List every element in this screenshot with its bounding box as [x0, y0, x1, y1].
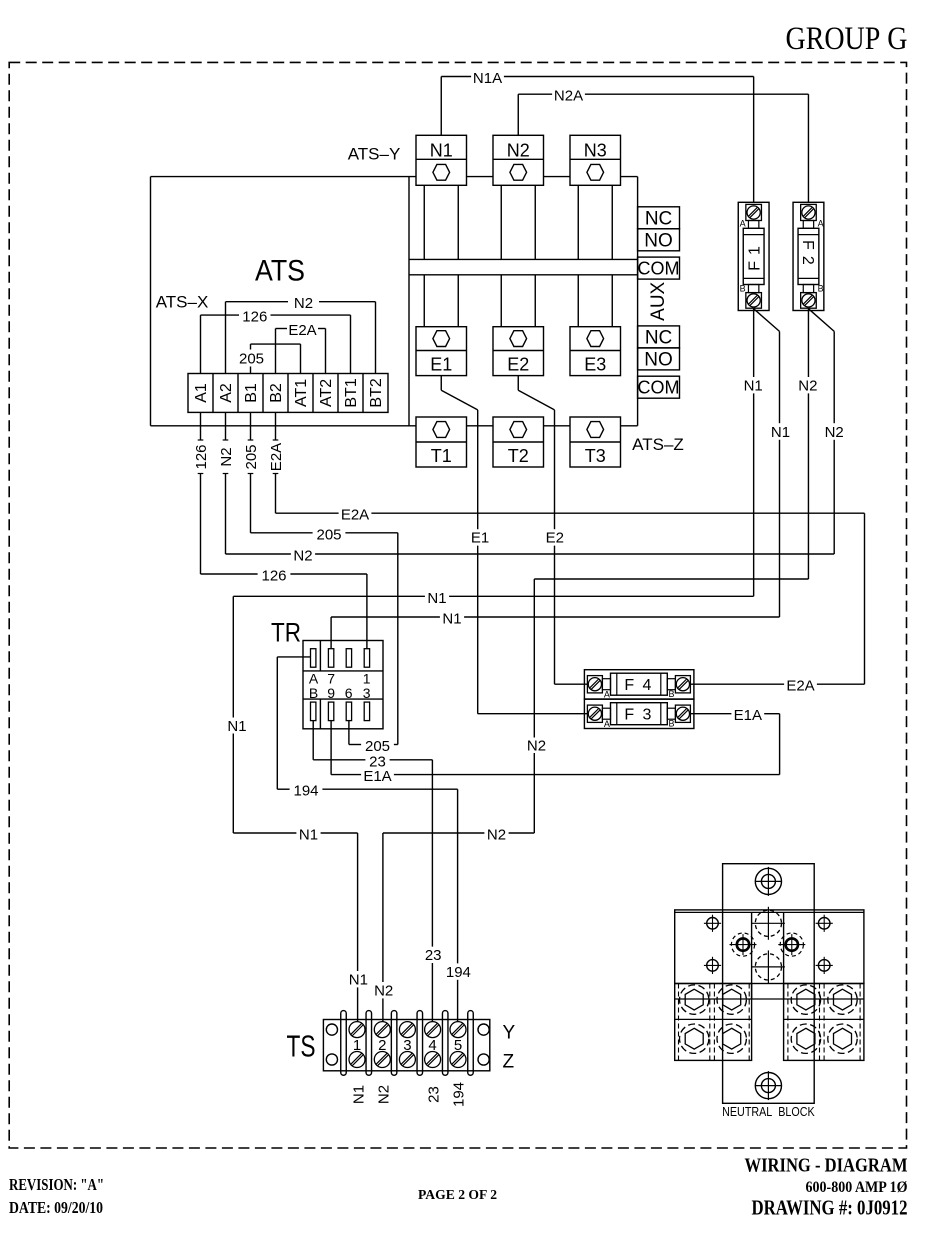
svg-text:N1: N1: [349, 972, 368, 989]
svg-text:B1: B1: [243, 383, 260, 403]
svg-text:1: 1: [363, 670, 371, 686]
svg-text:E2: E2: [507, 355, 529, 375]
svg-text:T1: T1: [431, 446, 452, 466]
svg-text:ATS–X: ATS–X: [156, 293, 209, 312]
svg-text:NO: NO: [644, 350, 673, 371]
svg-text:AT2: AT2: [318, 379, 335, 407]
svg-text:194: 194: [451, 1082, 468, 1107]
svg-text:205: 205: [316, 526, 341, 543]
svg-text:126: 126: [193, 444, 210, 469]
svg-text:B: B: [740, 284, 746, 294]
svg-text:Y: Y: [503, 1023, 516, 1044]
svg-text:7: 7: [327, 670, 335, 686]
svg-text:N1: N1: [227, 718, 246, 735]
svg-text:NC: NC: [645, 209, 672, 230]
svg-text:N1: N1: [771, 424, 790, 441]
svg-text:N1A: N1A: [473, 70, 502, 87]
svg-text:194: 194: [446, 964, 471, 981]
svg-text:B: B: [668, 689, 674, 699]
svg-text:NC: NC: [645, 328, 672, 349]
svg-text:E2A: E2A: [341, 507, 369, 524]
svg-text:AT1: AT1: [293, 379, 310, 407]
svg-text:N2: N2: [293, 548, 312, 565]
svg-text:E3: E3: [584, 355, 606, 375]
svg-text:A: A: [309, 670, 319, 686]
svg-text:N1: N1: [350, 1085, 367, 1104]
svg-text:N2: N2: [294, 295, 313, 312]
svg-text:2: 2: [378, 1037, 386, 1054]
svg-text:TR: TR: [271, 618, 301, 648]
svg-text:WIRING - DIAGRAM: WIRING - DIAGRAM: [745, 1155, 908, 1177]
svg-text:205: 205: [239, 350, 264, 367]
svg-text:600-800 AMP 1Ø: 600-800 AMP 1Ø: [806, 1179, 908, 1196]
svg-text:BT2: BT2: [368, 378, 385, 407]
svg-text:4: 4: [428, 1037, 436, 1054]
svg-text:N2: N2: [527, 738, 546, 755]
svg-text:F 3: F 3: [624, 706, 653, 723]
svg-text:B: B: [309, 685, 318, 701]
svg-text:T2: T2: [508, 446, 529, 466]
svg-text:E2A: E2A: [268, 443, 285, 471]
svg-text:A2: A2: [218, 383, 235, 403]
svg-text:B: B: [818, 284, 824, 294]
svg-text:N1: N1: [427, 590, 446, 607]
svg-text:23: 23: [425, 1086, 442, 1103]
svg-text:N2A: N2A: [554, 88, 583, 105]
svg-text:E2A: E2A: [786, 678, 814, 695]
svg-text:REVISION: "A": REVISION: "A": [9, 1175, 104, 1194]
svg-text:B: B: [668, 719, 674, 729]
svg-text:A1: A1: [193, 383, 210, 403]
svg-text:126: 126: [242, 309, 267, 326]
svg-text:N2: N2: [507, 140, 530, 160]
svg-text:E1A: E1A: [363, 768, 391, 785]
svg-text:NO: NO: [644, 231, 673, 252]
svg-text:N1: N1: [442, 611, 461, 628]
svg-text:COM: COM: [638, 258, 680, 278]
svg-text:N3: N3: [584, 140, 607, 160]
svg-text:E1: E1: [471, 530, 489, 547]
svg-text:N2: N2: [374, 983, 393, 1000]
svg-text:AUX: AUX: [648, 281, 669, 320]
svg-text:N2: N2: [218, 447, 235, 466]
svg-text:ATS: ATS: [255, 254, 305, 287]
svg-text:E1: E1: [430, 355, 452, 375]
svg-text:A: A: [740, 219, 746, 229]
svg-text:E2: E2: [546, 530, 564, 547]
svg-text:23: 23: [425, 947, 442, 964]
svg-text:ATS–Z: ATS–Z: [632, 435, 684, 454]
svg-text:BT1: BT1: [343, 378, 360, 407]
svg-text:N1: N1: [299, 827, 318, 844]
svg-text:F1: F1: [746, 240, 763, 271]
svg-text:1: 1: [353, 1037, 361, 1054]
svg-text:5: 5: [454, 1037, 462, 1054]
svg-text:N1: N1: [430, 140, 453, 160]
svg-text:194: 194: [293, 783, 318, 800]
svg-text:DRAWING #: 0J0912: DRAWING #: 0J0912: [752, 1195, 908, 1219]
svg-text:9: 9: [327, 685, 335, 701]
svg-text:COM: COM: [638, 378, 680, 398]
svg-text:ATS–Y: ATS–Y: [348, 145, 401, 164]
svg-text:N2: N2: [375, 1085, 392, 1104]
svg-text:T3: T3: [585, 446, 606, 466]
svg-text:3: 3: [403, 1037, 411, 1054]
svg-text:N2: N2: [487, 827, 506, 844]
svg-text:E1A: E1A: [734, 707, 762, 724]
svg-text:6: 6: [345, 685, 353, 701]
svg-text:A: A: [604, 719, 610, 729]
svg-text:DATE: 09/20/10: DATE: 09/20/10: [9, 1198, 103, 1217]
svg-text:A: A: [818, 219, 824, 229]
svg-text:N1: N1: [744, 378, 763, 395]
svg-text:TS: TS: [287, 1029, 316, 1064]
svg-text:3: 3: [363, 685, 371, 701]
svg-text:F2: F2: [799, 240, 816, 271]
svg-text:A: A: [604, 690, 610, 700]
svg-text:N2: N2: [798, 378, 817, 395]
svg-text:N2: N2: [825, 424, 844, 441]
svg-text:205: 205: [243, 444, 260, 469]
svg-text:GROUP G: GROUP G: [786, 21, 908, 57]
svg-text:E2A: E2A: [288, 322, 316, 339]
svg-text:PAGE 2 OF 2: PAGE 2 OF 2: [418, 1188, 497, 1203]
svg-text:Z: Z: [503, 1052, 515, 1073]
svg-text:NEUTRAL BLOCK: NEUTRAL BLOCK: [722, 1105, 815, 1119]
svg-text:B2: B2: [268, 383, 285, 403]
svg-text:F 4: F 4: [624, 677, 653, 694]
svg-text:126: 126: [261, 568, 286, 585]
